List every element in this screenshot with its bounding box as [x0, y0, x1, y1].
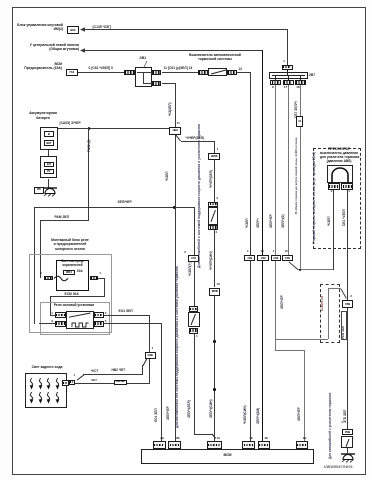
note cruise [198, 124, 202, 268]
bcm pin f [296, 441, 309, 449]
wire y141 [181, 141, 215, 142]
fuse element [53, 275, 69, 282]
BCM box [141, 449, 314, 465]
connector row box4 [282, 255, 293, 261]
relay pin 2 [94, 312, 104, 318]
wire x194 down c [194, 334, 195, 435]
relay pin 3 [55, 321, 66, 327]
pin c2 [152, 347, 154, 351]
wire row1 C135 [84, 29, 287, 30]
dashed box 1 [313, 148, 361, 250]
label J/B1 [139, 56, 146, 60]
note no cruise [176, 266, 180, 428]
label x275 a [270, 214, 274, 228]
relay pin 5 [94, 321, 104, 327]
wire x174 down b [175, 135, 176, 442]
note box2 [321, 296, 325, 311]
relay frame [40, 302, 110, 335]
pin jb7 top label [283, 60, 285, 64]
wire relay bottom down [161, 323, 162, 442]
label lamp a2 [112, 369, 126, 373]
label C61 a [89, 67, 113, 71]
note engine bay [313, 152, 317, 244]
wire press right down [347, 190, 348, 300]
label x214 b [210, 251, 214, 270]
bcm pin numbers [160, 437, 164, 441]
connector C14 [296, 116, 303, 127]
relay pin 1 [55, 312, 66, 318]
label x275 b [281, 295, 285, 309]
label CA05 [60, 122, 81, 126]
label x174 b [166, 171, 170, 181]
wire relay out top [104, 315, 150, 316]
fuse left pin [44, 276, 53, 281]
wire relay coil in [39, 323, 55, 324]
wire corner left [40, 220, 89, 221]
switch S2 top pin [208, 202, 218, 208]
J/B7 body [269, 72, 309, 80]
fuse id box [63, 270, 75, 275]
ground battery [42, 187, 58, 198]
label c5b b [344, 409, 348, 422]
wire lamp a down [142, 365, 143, 375]
wire x160 label [155, 408, 159, 422]
label montage box [46, 238, 94, 242]
label c5b a [342, 326, 345, 339]
relay body [66, 311, 94, 328]
wire x214 down e [214, 342, 215, 442]
wire down x33 [34, 207, 35, 324]
switch S4 lever [345, 438, 350, 448]
c11 jog diag [174, 133, 182, 142]
pin 13 [238, 68, 242, 72]
wire x275 down c [275, 339, 276, 350]
label RAM ZEL [55, 216, 70, 220]
label BCM [141, 453, 314, 457]
wire x214 down b [214, 160, 215, 202]
connector row box2 [257, 255, 268, 261]
pin c5b [350, 295, 352, 299]
lamp box [25, 373, 67, 408]
wire battery link [48, 150, 49, 156]
wire y350 right [275, 350, 304, 351]
label central panel [14, 44, 79, 48]
wire jb1 out [162, 83, 176, 84]
label bus y207 [118, 201, 132, 205]
label relay [42, 304, 106, 308]
wire x214 down d [214, 296, 215, 442]
battery box 1 [40, 127, 59, 151]
label x287 a [282, 214, 286, 228]
arrow row2 [80, 48, 86, 53]
junction battery feed [88, 127, 90, 129]
battery fuse EL [44, 162, 54, 167]
box2 diag [340, 288, 347, 299]
J/B7 top pin [282, 65, 293, 70]
wire y339 [275, 339, 327, 340]
battery fuse B+ [44, 131, 54, 137]
wire row3 c [237, 72, 251, 73]
wire fuse out right [98, 278, 104, 279]
pin s2 b [215, 231, 217, 235]
label x249 [246, 218, 250, 228]
pressure pin 2 [328, 183, 340, 190]
battery fuse BAT [44, 140, 54, 146]
lamp connector a [62, 380, 69, 387]
wire x303 down [304, 350, 305, 441]
label c5b a box [341, 311, 347, 341]
label press right [343, 209, 347, 226]
wire down x39 [40, 220, 41, 278]
label x214 c [210, 399, 214, 418]
label relay top out [119, 310, 133, 314]
connector C5B [342, 300, 353, 309]
wire down x88 [88, 128, 89, 221]
box4 diag [288, 261, 299, 271]
diagram id [324, 465, 353, 469]
label lamp b box [114, 380, 127, 385]
pin c194 [184, 251, 186, 255]
pressure pin labels [331, 190, 333, 194]
switch S1 right pin [227, 70, 237, 75]
label x303 [298, 407, 302, 421]
label battery [24, 112, 62, 116]
switch S4 body [341, 436, 353, 448]
pin row numbers [247, 250, 249, 254]
switch S3 body [188, 312, 201, 327]
label auto brake switch [188, 54, 242, 58]
wire y269 [298, 269, 333, 270]
wire c5b down [347, 308, 348, 429]
wire row2 down bold [262, 50, 264, 256]
label fuse block [57, 260, 88, 264]
fuse right pin [90, 276, 99, 281]
label x194 a [189, 262, 193, 276]
note x300 [295, 138, 299, 214]
pressure pin 1 [341, 183, 353, 190]
wire fuse to relay [50, 296, 51, 315]
label x300 a [295, 101, 299, 118]
fuse F13 [66, 69, 78, 77]
switch S2 contact [210, 209, 216, 223]
wire row2 [84, 50, 262, 51]
wire lamp b left [75, 383, 150, 384]
wire x275 down [275, 85, 276, 255]
connector B14 [67, 26, 79, 34]
pin s1 top [217, 148, 219, 152]
battery fuse RU [44, 169, 54, 174]
wire fuse out left [50, 296, 105, 297]
lamp elements [29, 378, 34, 390]
wire row3 a [78, 72, 124, 73]
label 30A [77, 270, 83, 274]
label C135 [93, 25, 112, 29]
wire fuse out down [104, 278, 105, 297]
label RA32 [88, 140, 92, 152]
label x262 [257, 218, 261, 228]
label ECM 30A [65, 293, 79, 297]
J/B7 bus [272, 75, 305, 76]
wire x194 to bcm [194, 434, 213, 435]
pin s3 b [196, 335, 198, 339]
J/B7 pin 18 [295, 80, 306, 85]
J/B1 right pin top [152, 70, 162, 76]
switch S1 body [208, 68, 227, 77]
lamp jog diag [142, 358, 148, 367]
connector row box3 [271, 255, 281, 261]
wire press left down [333, 190, 334, 270]
switch S2 body [208, 207, 218, 225]
wire into relay pin1 [50, 315, 56, 316]
junction y207 [173, 206, 176, 209]
pressure switch arch [329, 167, 351, 183]
relay contact [68, 312, 92, 318]
connector C2 lamp [145, 352, 156, 359]
pin f1 [40, 272, 42, 276]
pin 11 c [177, 122, 180, 126]
wire lamp b down [149, 359, 150, 383]
label pressure switch [320, 148, 358, 152]
wire x194 down b [194, 262, 195, 305]
wire row3 down [250, 72, 251, 255]
J/B1 left pin [124, 70, 135, 76]
note psw [329, 393, 333, 459]
connector BU08 [209, 288, 220, 296]
J/B7 pin 8 [270, 80, 281, 85]
wire relay out bottom [104, 323, 162, 324]
label lamp [27, 366, 67, 370]
wire box2 vert [328, 288, 329, 339]
junction block J/B1 body [135, 67, 152, 87]
battery box 2 [40, 156, 57, 178]
lamp a diag [76, 374, 85, 381]
pin bu08 [217, 283, 220, 287]
label x194 b [188, 400, 192, 418]
wire lamp a left [83, 374, 143, 375]
jog to pin C [211, 433, 217, 439]
pin f2 [99, 272, 101, 276]
wire x300 down b [300, 127, 301, 270]
lamp pin num [74, 374, 76, 377]
label press left [328, 217, 332, 227]
bcm pin e [258, 441, 271, 449]
label x249 b [244, 405, 248, 424]
wire battery feed [58, 128, 169, 129]
label lamp a1 [91, 370, 98, 374]
label x174 c [167, 406, 171, 420]
pin s2 t [216, 197, 218, 201]
montage box frame [29, 254, 113, 333]
pin numbers jb7 [272, 86, 274, 90]
relay pin labels [51, 312, 53, 316]
label x214 a [210, 170, 214, 188]
wire s4 down [347, 448, 348, 453]
label J/B7 [309, 74, 315, 78]
connector C194 [188, 255, 199, 262]
label BCM fuse [14, 63, 62, 67]
wire x275 down b [275, 261, 276, 350]
label C61 b [164, 67, 193, 71]
J/B1 internal bus [137, 72, 144, 73]
splice dot 2 [213, 388, 216, 391]
label y141 [186, 137, 205, 141]
connector BU06 [208, 153, 220, 160]
switch S1 contact [210, 69, 227, 75]
relay coil [71, 322, 89, 328]
bcm pin a [153, 441, 166, 449]
arrow row1 [80, 27, 86, 32]
label ECU IM(2) [14, 24, 63, 28]
wire x214 down c [214, 230, 215, 287]
switch S3 bottom pin [189, 328, 199, 334]
wire down to J/B7 pin [287, 29, 288, 65]
wire x249 down b [250, 261, 251, 441]
wire box2 top [328, 288, 342, 289]
wire x174 down a [175, 83, 176, 127]
lamp connector b [69, 380, 75, 385]
wire bus y207 [34, 207, 194, 208]
bcm pin d [242, 441, 255, 449]
switch S3 top pin [189, 306, 199, 312]
wire row3 b [162, 72, 198, 73]
ground right [340, 453, 356, 464]
bcm pin c [207, 441, 222, 449]
wire battery down [48, 179, 49, 190]
label lamp b1 [91, 379, 97, 383]
wire x262 down b [262, 261, 264, 441]
ground id box [34, 187, 45, 194]
label x174 a [169, 102, 173, 116]
switch S3 contact [190, 313, 197, 326]
wire x287 down [288, 85, 289, 255]
splice dot 1 [213, 340, 216, 343]
wire x214 down a [214, 141, 215, 152]
J/B1 right pin bottom [152, 81, 162, 87]
fuse block box [56, 260, 89, 291]
wire relay top down [149, 315, 150, 352]
switch S2 bottom pin [208, 225, 218, 231]
switch S1 left pin [198, 70, 209, 75]
label x262 b [257, 408, 261, 424]
pin rsv [341, 421, 343, 425]
connector row box1 [244, 255, 255, 261]
bcm pin b [168, 441, 181, 449]
J/B7 pin 17 [283, 80, 294, 85]
junction x300 y269 [299, 269, 301, 271]
pressure switch body [327, 165, 353, 183]
wire x300 down a [300, 85, 301, 116]
connector C11 [169, 127, 181, 135]
connector RSV [342, 429, 354, 435]
dashed box 2 [320, 284, 341, 344]
wire x194 down a [194, 207, 195, 256]
